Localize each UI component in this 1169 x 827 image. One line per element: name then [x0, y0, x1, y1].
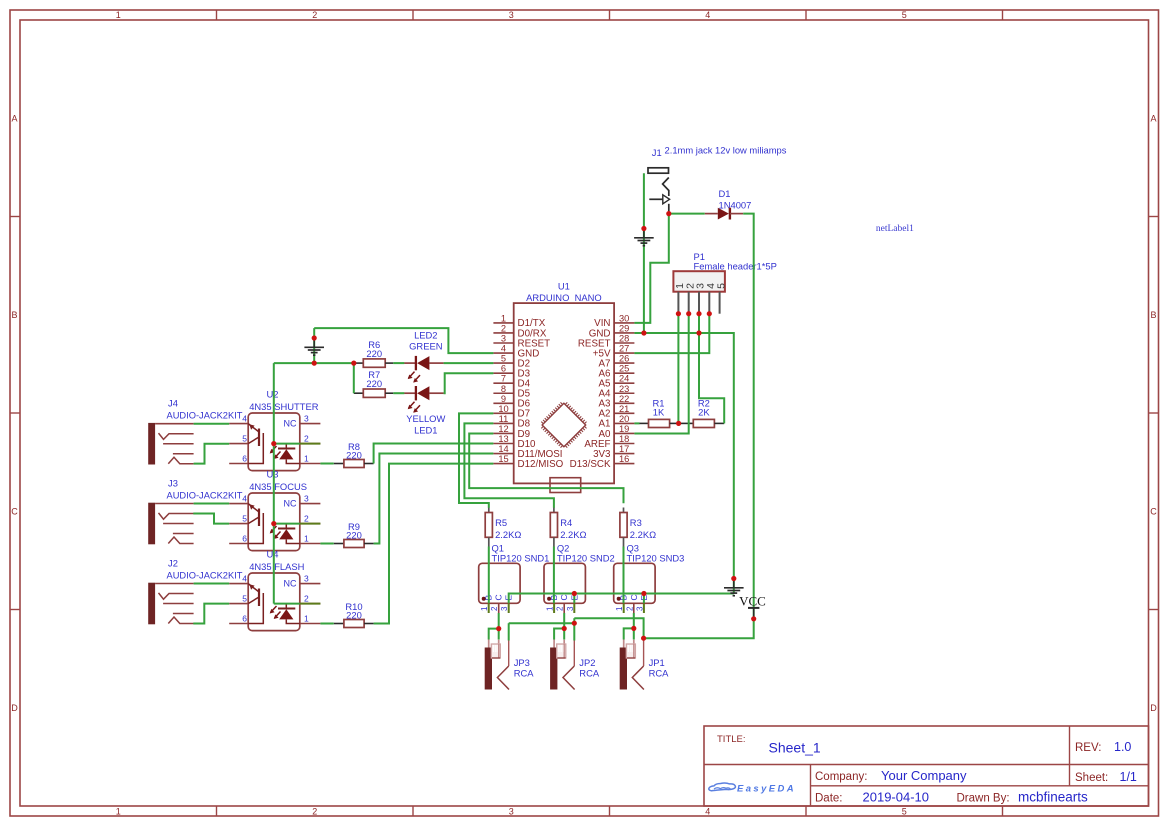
svg-text:5: 5 — [902, 10, 907, 20]
transistor Q1 collector stub — [498, 603, 500, 613]
svg-text:YELLOW: YELLOW — [406, 413, 445, 424]
U3 phototransistor emitter with arrow — [248, 504, 259, 512]
wire D7 pin 10 to R5 — [459, 413, 493, 507]
svg-text:6: 6 — [242, 533, 247, 543]
J1 tip contact arrow head — [663, 195, 670, 204]
wire D9 pin 12 to R3 — [469, 434, 623, 504]
svg-text:29: 29 — [619, 323, 629, 333]
connector JP2 center socket hatched — [557, 644, 566, 658]
wire J3 sleeve to U3 pin 4 — [194, 503, 230, 505]
U3 pin 3 stub — [300, 503, 321, 505]
wire Q3 emitter branch — [643, 594, 645, 604]
connector JP2 socket bottom lead — [557, 657, 565, 659]
wire Q1 collector to JP3 — [498, 613, 500, 640]
wire U3 pin 2 to ground bus — [274, 523, 300, 525]
U1 pin 18 stub — [614, 443, 634, 445]
optocoupler U3 body — [248, 493, 300, 551]
U4 pin 3 stub — [300, 583, 321, 585]
svg-text:RCA: RCA — [514, 668, 535, 679]
transistor Q3 collector stub — [633, 603, 635, 613]
svg-text:AUDIO-JACK2KIT: AUDIO-JACK2KIT — [167, 570, 243, 580]
resistor R9 body — [344, 540, 364, 548]
resistor R8 body — [344, 460, 364, 468]
svg-text:Your Company: Your Company — [881, 768, 967, 783]
wire emitter rail to ground — [509, 594, 734, 604]
svg-text:R5: R5 — [495, 517, 507, 528]
svg-text:2: 2 — [490, 606, 499, 611]
optocoupler U2 body — [248, 413, 300, 471]
resistor R10 left lead — [334, 623, 344, 625]
wire J2 switch to U4 pin 5 — [193, 604, 229, 624]
svg-text:NC: NC — [284, 419, 297, 429]
frame column ticks top — [216, 10, 218, 20]
U4 pin 4 stub — [229, 583, 248, 585]
wire JP2 shield riser — [573, 618, 575, 640]
svg-text:2K: 2K — [698, 407, 710, 418]
resistor R7 left lead — [354, 392, 364, 394]
wire LED2 to D2 pin 5 — [444, 362, 494, 364]
wire R5 to Q1 base — [488, 547, 490, 604]
U4 pin 6 stub — [229, 623, 248, 625]
U4 infrared LED triangle — [279, 609, 293, 619]
svg-text:Drawn By:: Drawn By: — [957, 793, 1010, 805]
svg-text:D13/SCK: D13/SCK — [570, 459, 611, 470]
LED LED2 triangle — [417, 356, 429, 370]
connector J3 ring contact — [163, 523, 194, 525]
U2 pin 3 stub — [300, 423, 321, 425]
U1 pin 7 stub — [493, 382, 513, 384]
wire J2 sleeve to U4 pin 4 — [194, 583, 230, 585]
svg-text:3: 3 — [304, 573, 309, 583]
svg-text:J3: J3 — [168, 477, 178, 488]
connector JP1 shield pin lead — [643, 641, 645, 667]
U1 pin 20 stub — [614, 422, 634, 424]
svg-text:1.0: 1.0 — [1114, 740, 1131, 754]
connector J4 switch contact with peak — [168, 457, 193, 464]
wire J1 tip to D1 anode — [669, 213, 705, 215]
junction Q1 collector / JP3 pins — [496, 626, 501, 631]
resistor R2 body — [693, 419, 714, 427]
connector JP1 center socket hatched — [626, 644, 635, 658]
connector JP2 shield prong — [563, 666, 575, 690]
LED LED1 light arrows — [409, 402, 415, 409]
wire ground tap vertical — [313, 328, 315, 363]
svg-text:R4: R4 — [560, 517, 572, 528]
title block outline — [704, 726, 1149, 806]
U4 infrared LED cathode lead — [285, 604, 287, 609]
svg-text:U4: U4 — [267, 549, 279, 560]
svg-text:5: 5 — [501, 354, 506, 364]
U2 phototransistor emitter with arrow — [248, 424, 259, 432]
junction J1 tip / VIN / D1 — [666, 211, 671, 216]
svg-text:25: 25 — [619, 364, 629, 374]
U3 pin 2 stub — [300, 523, 321, 525]
ground symbol near J1 stem — [643, 229, 645, 238]
U3 pin 1 stub — [300, 543, 321, 545]
svg-text:26: 26 — [619, 354, 629, 364]
U2 phototransistor base lead — [248, 433, 263, 464]
svg-text:30: 30 — [619, 313, 629, 323]
junction GND row / P1 pin 3 — [696, 330, 701, 335]
transistor Q2 emitter stub — [573, 603, 575, 613]
power symbol VCC bar — [748, 607, 759, 609]
U1 pin 1 stub — [493, 322, 513, 324]
diode D1 anode lead — [705, 213, 718, 215]
U3 phototransistor base lead — [248, 513, 263, 544]
svg-text:AUDIO-JACK2KIT: AUDIO-JACK2KIT — [167, 490, 243, 500]
title block divider under Company row — [811, 785, 1149, 787]
wire R6 R7 junction drop — [353, 363, 355, 393]
svg-text:Company:: Company: — [815, 771, 867, 783]
svg-text:D12/MISO: D12/MISO — [518, 459, 564, 470]
junction R6 / R7 — [351, 361, 356, 366]
resistor R3 body — [620, 513, 627, 538]
svg-text:5: 5 — [715, 283, 727, 289]
title block logo cell divider — [810, 765, 812, 807]
LED LED2 cathode bar — [415, 356, 417, 370]
wire LED1 to D3 pin 6 — [444, 373, 494, 393]
U2 infrared LED cathode bar — [278, 448, 295, 450]
svg-text:22: 22 — [619, 394, 629, 404]
LED LED1 cathode bar — [415, 386, 417, 400]
U3 light arrows — [271, 526, 277, 533]
svg-text:28: 28 — [619, 334, 629, 344]
svg-text:A: A — [1150, 113, 1156, 123]
connector J2 sleeve line to pin 4 — [155, 583, 194, 585]
P1 pin 5 lead — [719, 292, 721, 314]
U1 pin 10 stub — [493, 412, 513, 414]
wire D11 pin 14 to R9 — [374, 454, 494, 544]
U1 chip diamond glyph — [538, 399, 590, 451]
connector JP1 left pin stub — [623, 640, 625, 649]
connector P1 body — [673, 271, 725, 292]
resistor R7 right lead — [385, 392, 393, 394]
svg-text:ARDUINO_NANO: ARDUINO_NANO — [526, 292, 602, 303]
U1 pin 9 stub — [493, 402, 513, 404]
junction shield chain at JP2 — [572, 621, 577, 626]
wire J4 switch to U2 pin 5 — [194, 444, 230, 464]
transistor Q1 base stub — [488, 603, 490, 613]
svg-text:2: 2 — [312, 807, 317, 817]
svg-text:NC: NC — [284, 499, 297, 509]
svg-text:24: 24 — [619, 374, 629, 384]
frame column ticks bottom — [216, 806, 218, 816]
transistor Q1 pin 1 marker dot — [482, 597, 486, 601]
junction Q2 collector / JP2 pins — [562, 626, 567, 631]
wire P1 pin 3 to R2 right — [699, 314, 724, 424]
svg-text:21: 21 — [619, 404, 629, 414]
resistor R8 left lead — [334, 463, 344, 465]
svg-text:RCA: RCA — [579, 668, 600, 679]
U2 phototransistor base bar — [258, 429, 260, 447]
connector J2 tip contact with chevron — [159, 593, 194, 599]
svg-text:9: 9 — [501, 394, 506, 404]
wire Q2 collector to JP2 — [563, 613, 565, 640]
wire D1 cathode to VCC and JP1 shield — [644, 214, 754, 639]
connector JP2 body bar — [550, 648, 557, 690]
svg-text:TIP120 SND2: TIP120 SND2 — [557, 553, 615, 564]
svg-text:D1: D1 — [719, 188, 731, 199]
wire J4 sleeve to U2 pin 4 — [194, 423, 230, 425]
J1 tip contact arrow lead — [649, 198, 663, 200]
wire JP2 shield to JP1 shield — [574, 618, 643, 640]
U1 pin 27 stub — [614, 352, 634, 354]
junction ground bus / U2 pin 2 — [271, 441, 276, 446]
svg-text:3: 3 — [509, 10, 514, 20]
svg-text:220: 220 — [366, 378, 382, 389]
wire J1 sleeve to GND pin 29 net — [643, 173, 645, 333]
wire P1 pin 2 to A0 pin 19 — [634, 314, 688, 434]
U4 light arrows — [271, 606, 277, 613]
svg-text:1K: 1K — [653, 407, 665, 418]
EasyEDA logo cloud icon — [709, 783, 736, 791]
junction emitter rail / Q3 — [641, 591, 646, 596]
svg-text:11: 11 — [499, 414, 509, 424]
U2 pin 1 stub — [300, 463, 321, 465]
resistor R5 bottom lead — [488, 537, 490, 546]
wire U3 pin 1 to R9 — [320, 543, 333, 545]
svg-text:17: 17 — [619, 444, 629, 454]
U2 infrared LED cathode lead — [285, 444, 287, 449]
svg-text:JP1: JP1 — [649, 657, 665, 668]
connector JP3 shield pin lead — [508, 641, 510, 667]
connector JP3 shield prong — [497, 666, 509, 690]
junction R1 / R2 / P1 pin 1 — [676, 421, 681, 426]
svg-text:C: C — [11, 506, 18, 516]
U3 phototransistor collector — [248, 517, 259, 524]
U1 pin 30 stub — [614, 322, 634, 324]
svg-text:2.2KΩ: 2.2KΩ — [560, 529, 586, 540]
svg-text:J1: J1 — [652, 147, 662, 158]
resistor R2 right lead — [714, 422, 724, 424]
svg-text:J4: J4 — [168, 398, 178, 409]
LED LED1 left lead — [404, 392, 416, 394]
wire JP1 left pin branch — [624, 628, 634, 639]
diode D1 cathode lead — [730, 213, 743, 215]
wire U2 pin 2 to ground bus — [274, 443, 300, 445]
junction P1 pin 4 — [707, 311, 712, 316]
svg-text:LED2: LED2 — [414, 330, 437, 341]
U1 pin 15 stub — [493, 463, 513, 465]
svg-text:1: 1 — [501, 313, 506, 323]
junction J1 sleeve ground tap — [641, 226, 646, 231]
U1 pin 3 stub — [493, 342, 513, 344]
P1 pin 1 lead — [677, 292, 679, 314]
U1 pin 5 stub — [493, 362, 513, 364]
connector J2 inner contact — [173, 613, 194, 615]
resistor R10 right lead — [364, 623, 374, 625]
svg-text:20: 20 — [619, 414, 629, 424]
svg-text:D: D — [11, 703, 18, 713]
svg-text:3: 3 — [509, 807, 514, 817]
transistor Q1 emitter stub — [508, 603, 510, 613]
transistor Q3 emitter stub — [643, 603, 645, 613]
transistor Q2 collector stub — [563, 603, 565, 613]
svg-text:J2: J2 — [168, 557, 178, 568]
U1 pin 19 stub — [614, 432, 634, 434]
U3 phototransistor base bar — [258, 509, 260, 527]
frame row ticks left — [10, 216, 20, 218]
svg-text:U1: U1 — [558, 281, 570, 292]
connector JP2 shield pin lead — [573, 641, 575, 667]
ground symbol near J1 bars — [634, 237, 654, 239]
junction P1 pin 1 — [676, 311, 681, 316]
U3 infrared LED cathode bar — [278, 528, 295, 530]
svg-text:REV:: REV: — [1075, 742, 1101, 754]
junction GND wire / ground symbol — [731, 576, 736, 581]
connector J4 tip contact with chevron — [159, 433, 194, 439]
transistor Q3 pin 1 marker dot — [617, 597, 621, 601]
LED LED2 left lead — [404, 362, 416, 364]
svg-text:6: 6 — [242, 613, 247, 623]
svg-text:JP3: JP3 — [514, 657, 530, 668]
LED LED2 light arrows — [409, 372, 415, 379]
connector J2 switch contact with peak — [168, 617, 193, 624]
svg-text:C: C — [629, 594, 639, 600]
optocoupler U4 body — [248, 573, 300, 631]
U3 pin 4 stub — [229, 503, 248, 505]
svg-text:12: 12 — [498, 424, 508, 434]
U1 pin 28 stub — [614, 342, 634, 344]
U4 phototransistor emitter with arrow — [248, 584, 259, 592]
U1 pin 22 stub — [614, 402, 634, 404]
svg-text:C: C — [559, 594, 569, 600]
transistor Q2 pin 1 marker dot — [547, 597, 551, 601]
U1 pin 14 stub — [493, 453, 513, 455]
U1 pin 16 stub — [614, 463, 634, 465]
svg-text:1/1: 1/1 — [1120, 770, 1137, 784]
svg-text:4N35 SHUTTER: 4N35 SHUTTER — [249, 401, 319, 412]
svg-text:8: 8 — [501, 384, 506, 394]
resistor R4 top lead — [553, 508, 555, 513]
U3 infrared LED cathode lead — [285, 524, 287, 529]
wire VIN pin 30 to J1 tip — [634, 214, 668, 323]
connector J2 ring contact — [163, 603, 194, 605]
junction emitter rail / Q2 — [572, 591, 577, 596]
LED LED1 right lead — [429, 392, 443, 394]
svg-text:Sheet:: Sheet: — [1075, 772, 1108, 784]
resistor R5 body — [485, 513, 492, 538]
resistor R10 body — [344, 620, 364, 628]
connector JP3 center socket hatched — [491, 644, 500, 658]
P1 pin 4 lead — [708, 292, 710, 314]
title block divider under TITLE row — [704, 764, 1149, 766]
svg-text:3: 3 — [304, 413, 309, 423]
svg-text:C: C — [1150, 506, 1157, 516]
P1 pin 2 lead — [688, 292, 690, 314]
connector JP1 shield prong — [632, 666, 644, 690]
svg-text:NC: NC — [284, 579, 297, 589]
svg-text:4: 4 — [501, 344, 506, 354]
connector J4 ring contact — [163, 443, 194, 445]
U4 pin 2 stub — [300, 603, 321, 605]
U4 pin 5 stub — [229, 603, 248, 605]
svg-text:13: 13 — [498, 434, 508, 444]
svg-text:6: 6 — [242, 453, 247, 463]
wire R3 to Q3 base — [623, 547, 625, 604]
U1 USB connector rectangle — [550, 478, 581, 493]
svg-text:D: D — [1150, 703, 1157, 713]
U1 pin 26 stub — [614, 362, 634, 364]
U2 pin 4 stub — [229, 423, 248, 425]
svg-text:16: 16 — [619, 454, 629, 464]
svg-text:1: 1 — [116, 807, 121, 817]
power symbol VCC stem — [753, 608, 755, 619]
svg-text:U3: U3 — [267, 469, 279, 480]
connector J2 sleeve bar — [148, 583, 155, 625]
wire JP3 left pin branch — [489, 629, 499, 640]
U1 pin 8 stub — [493, 392, 513, 394]
transistor Q3 body — [614, 563, 655, 603]
svg-text:R3: R3 — [630, 517, 642, 528]
resistor R3 top lead — [623, 508, 625, 513]
resistor R3 bottom lead — [623, 537, 625, 546]
svg-text:2: 2 — [304, 513, 309, 523]
diode D1 cathode bar — [729, 208, 731, 220]
U3 infrared LED triangle — [279, 529, 293, 539]
U4 infrared LED cathode bar — [278, 608, 295, 610]
svg-text:2: 2 — [304, 433, 309, 443]
junction P1 pin 2 — [686, 311, 691, 316]
wire A1 pin 20 stub to R1 — [634, 422, 639, 424]
ground symbol near LEDs bars — [304, 346, 324, 348]
U4 phototransistor base lead — [248, 593, 263, 624]
svg-text:GREEN: GREEN — [409, 341, 442, 352]
resistor R5 top lead — [488, 508, 490, 513]
connector J4 inner contact — [173, 453, 194, 455]
connector J3 sleeve bar — [148, 503, 155, 545]
wire JP3 shield to JP2 shield — [509, 622, 575, 624]
svg-text:2: 2 — [501, 323, 506, 333]
resistor R8 right lead — [364, 463, 374, 465]
U1 pin 17 stub — [614, 453, 634, 455]
resistor R1 right lead — [670, 422, 679, 424]
wire JP2 left pin branch — [554, 629, 564, 640]
svg-text:4: 4 — [242, 493, 247, 503]
wire R6 to LED2 — [393, 362, 404, 364]
title block REV column divider — [1069, 726, 1071, 786]
transistor Q2 base stub — [553, 603, 555, 613]
svg-text:2019-04-10: 2019-04-10 — [863, 790, 930, 805]
junction ground bus / U3 pin 2 — [271, 521, 276, 526]
svg-text:5: 5 — [902, 807, 907, 817]
wire D10 pin 13 to R8 — [374, 444, 494, 464]
connector J4 sleeve bar — [148, 423, 155, 465]
svg-text:Female header1*5P: Female header1*5P — [694, 261, 777, 272]
svg-text:7: 7 — [501, 374, 506, 384]
resistor R6 right lead — [385, 362, 393, 364]
svg-text:5: 5 — [242, 513, 247, 523]
wire opto ground vertical bus — [273, 363, 275, 603]
svg-text:A: A — [11, 113, 17, 123]
svg-text:2: 2 — [304, 593, 309, 603]
connector JP2 center pin stub — [563, 640, 565, 644]
transistor Q1 body — [479, 563, 520, 603]
ground symbol near VCC stem — [733, 579, 735, 588]
svg-text:15: 15 — [498, 454, 508, 464]
wire U4 pin 2 to ground bus — [274, 603, 300, 605]
U1 pin 21 stub — [614, 412, 634, 414]
U1 pin 25 stub — [614, 372, 634, 374]
svg-text:5: 5 — [242, 593, 247, 603]
svg-text:3: 3 — [304, 493, 309, 503]
svg-text:2.1mm jack 12v low miliamps: 2.1mm jack 12v low miliamps — [665, 145, 787, 156]
svg-text:4: 4 — [705, 807, 710, 817]
resistor R6 left lead — [354, 362, 364, 364]
ground symbol near LEDs stem — [313, 338, 315, 347]
frame row ticks right — [1149, 216, 1159, 218]
connector JP1 body bar — [620, 648, 627, 690]
